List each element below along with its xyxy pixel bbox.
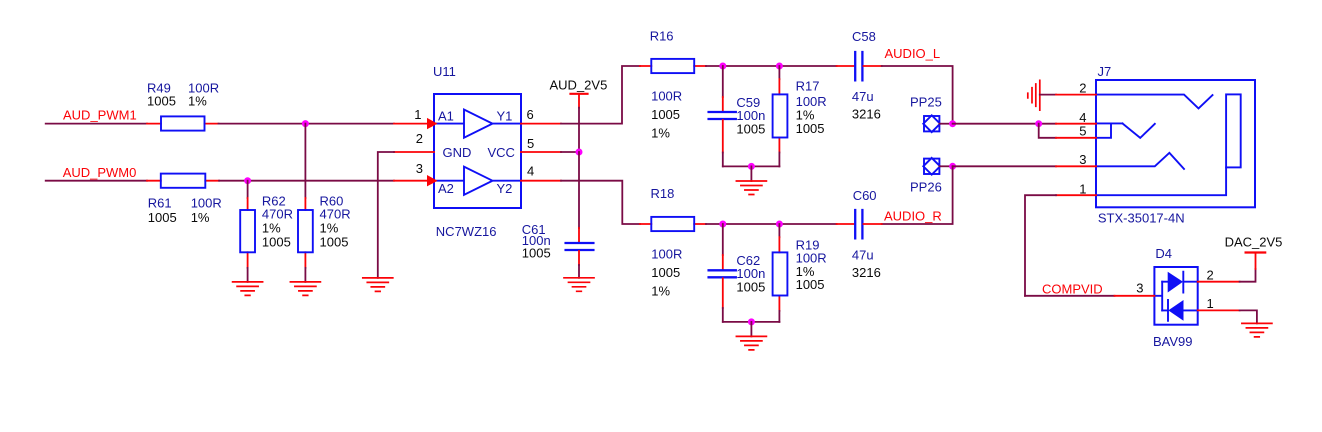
wire rail2 to ground: [750, 322, 752, 337]
svg-text:5: 5: [1079, 124, 1086, 139]
svg-text:STX-35017-4N: STX-35017-4N: [1098, 211, 1185, 226]
svg-text:R61: R61: [148, 196, 172, 211]
J7 pin 4: [1056, 123, 1096, 125]
svg-text:100R: 100R: [651, 89, 682, 104]
U11 pin 6: [521, 123, 561, 125]
wire rail row2: [723, 321, 780, 323]
ground under rail2: [736, 336, 766, 350]
svg-text:4: 4: [527, 163, 534, 178]
svg-text:2: 2: [1207, 267, 1214, 282]
D4 internal top diode: [1162, 272, 1198, 293]
svg-text:5: 5: [527, 136, 534, 151]
svg-text:R16: R16: [650, 28, 674, 43]
wire AUDIO_L to PP25 column: [882, 66, 953, 124]
svg-text:470R: 470R: [262, 207, 293, 222]
wire rail row1: [723, 165, 780, 167]
wire AUD_PWM1 to U11 pin 1: [219, 123, 395, 125]
wire U11 GND pin to ground: [378, 152, 394, 278]
wire Y1 output to R16 row: [561, 66, 640, 124]
svg-text:AUDIO_L: AUDIO_L: [885, 46, 941, 61]
node PP26 junction: [949, 163, 956, 170]
wire AUDIO_R up to PP26: [882, 166, 953, 224]
node J7 pin4 branch: [1035, 120, 1042, 127]
svg-text:AUD_2V5: AUD_2V5: [550, 78, 608, 93]
U11 pin 4: [521, 180, 561, 182]
wire PP26 to J7 pin3: [953, 165, 1056, 167]
resistor R61: [147, 174, 219, 188]
svg-text:1005: 1005: [736, 122, 765, 137]
svg-text:D4: D4: [1155, 246, 1172, 261]
wire C59 to rail: [722, 153, 724, 167]
svg-text:2: 2: [1079, 80, 1086, 95]
U11 buffer 2: [434, 167, 521, 195]
wire COMPVID horizontal: [1025, 295, 1115, 297]
wire R19 to rail2: [778, 311, 780, 322]
svg-text:1%: 1%: [320, 221, 339, 236]
ground under rail1: [736, 181, 766, 195]
wire VCC node down to C61: [578, 152, 580, 228]
svg-text:3216: 3216: [852, 265, 881, 280]
svg-text:R18: R18: [651, 186, 675, 201]
ground under R60: [290, 282, 320, 296]
wire J7 pin1 to COMPVID corner: [1025, 195, 1056, 296]
J7 pin 1: [1056, 194, 1096, 196]
svg-text:J7: J7: [1098, 64, 1112, 79]
wire R62 to ground: [247, 268, 249, 282]
capacitor C60: [837, 210, 882, 238]
svg-text:AUD_PWM1: AUD_PWM1: [63, 108, 137, 123]
svg-text:1005: 1005: [147, 94, 176, 109]
wire rail1 to ground: [750, 166, 752, 181]
resistor R17: [773, 66, 788, 153]
svg-text:GND: GND: [443, 145, 472, 160]
svg-text:R17: R17: [796, 79, 820, 94]
svg-text:1%: 1%: [651, 126, 670, 141]
capacitor C58: [837, 52, 882, 80]
svg-text:VCC: VCC: [488, 145, 515, 160]
J7 internal pin2 contact: [1096, 95, 1213, 109]
svg-text:1: 1: [414, 107, 421, 122]
resistor R19: [773, 224, 788, 311]
svg-text:A1: A1: [438, 109, 454, 124]
node VCC junction: [576, 149, 583, 156]
svg-text:1%: 1%: [262, 221, 281, 236]
svg-text:1: 1: [1207, 296, 1214, 311]
resistor R60: [298, 198, 313, 268]
wire R16 to C58: [706, 65, 837, 67]
svg-text:U11: U11: [433, 64, 456, 79]
wire AUD_2V5 down to VCC node: [578, 108, 580, 152]
svg-text:100R: 100R: [191, 196, 222, 211]
svg-text:3: 3: [1136, 280, 1143, 295]
svg-text:47u: 47u: [852, 247, 874, 262]
resistor R18: [640, 217, 706, 231]
wire PP25 to J7 pin4 node: [953, 123, 1056, 125]
wire Y2 output to R18 row: [561, 181, 640, 224]
D4 pin 2: [1198, 281, 1240, 283]
svg-text:1005: 1005: [262, 234, 291, 249]
capacitor C62: [709, 224, 736, 308]
svg-text:1%: 1%: [651, 283, 670, 298]
wire D4 pin1 to ground: [1240, 310, 1257, 323]
svg-text:1%: 1%: [191, 210, 210, 225]
svg-text:1005: 1005: [148, 210, 177, 225]
svg-text:AUD_PWM0: AUD_PWM0: [63, 165, 137, 180]
D4 internal common link: [1154, 282, 1162, 311]
ground under R62: [233, 282, 263, 296]
svg-text:3216: 3216: [852, 107, 881, 122]
J7 pin 2: [1056, 94, 1096, 96]
J7 internal pin4 tip contact: [1096, 123, 1155, 137]
op-amp U11 body: [434, 94, 521, 208]
svg-text:100R: 100R: [651, 246, 682, 261]
wire VCC pin to node: [561, 151, 579, 153]
node junction row1 at C59: [719, 63, 726, 70]
svg-text:BAV99: BAV99: [1153, 334, 1193, 349]
resistor R16: [640, 59, 706, 73]
svg-text:470R: 470R: [320, 207, 351, 222]
svg-text:3: 3: [1079, 152, 1086, 167]
svg-text:A2: A2: [438, 181, 454, 196]
svg-text:AUDIO_R: AUDIO_R: [884, 208, 942, 223]
ground under C61: [564, 278, 594, 292]
diode D4 body: [1154, 267, 1197, 325]
svg-text:Y1: Y1: [497, 109, 513, 124]
test point PP26: [923, 158, 952, 175]
wire R60 to ground: [304, 268, 306, 282]
node junction on AUD_PWM0: [244, 177, 251, 184]
svg-text:PP25: PP25: [910, 94, 942, 109]
svg-text:COMPVID: COMPVID: [1042, 281, 1103, 296]
node junction on AUD_PWM1: [302, 120, 309, 127]
wire R18 to C60: [706, 223, 837, 225]
node junction row1 at R17: [776, 63, 783, 70]
svg-text:1005: 1005: [796, 277, 825, 292]
wire AUD_PWM1 left: [46, 123, 147, 125]
J7 internal sleeve contact: [1226, 94, 1241, 167]
capacitor C61: [566, 228, 594, 265]
svg-text:C58: C58: [852, 29, 876, 44]
J7 internal pin3 ring contact: [1096, 153, 1184, 169]
wire C61 to ground: [578, 265, 580, 278]
resistor R62: [240, 181, 255, 268]
wire branch down to J7 pin5: [1039, 124, 1056, 138]
D4 pin 1: [1198, 309, 1240, 311]
J7 pin 3: [1056, 165, 1096, 167]
svg-text:1005: 1005: [522, 245, 551, 260]
wire AUD_PWM0 left: [46, 180, 147, 182]
node junction row2 at C62: [719, 221, 726, 228]
svg-text:1%: 1%: [188, 94, 207, 109]
svg-text:C60: C60: [853, 188, 877, 203]
wire AUD_PWM0 to U11 pin 3: [219, 180, 394, 182]
svg-text:3: 3: [416, 161, 423, 176]
J7 pin 5: [1056, 137, 1096, 139]
earth ground at J7 pin2: [1028, 80, 1056, 110]
U11 pin 3: [394, 180, 428, 182]
svg-text:DAC_2V5: DAC_2V5: [1225, 234, 1283, 249]
U11 pin 1: [394, 123, 428, 125]
J7 internal pin1 line: [1096, 167, 1226, 195]
wire R17 to rail: [778, 153, 780, 167]
node rail2 junction: [748, 318, 755, 325]
U11 pin 2: [394, 151, 434, 153]
power symbol DAC_2V5: [1225, 234, 1283, 269]
svg-text:PP26: PP26: [910, 180, 942, 195]
node PP25 junction: [949, 120, 956, 127]
svg-text:Y2: Y2: [497, 181, 513, 196]
capacitor C59: [709, 66, 736, 153]
ground at D4 pin1: [1242, 323, 1272, 337]
U11 pin 5: [521, 151, 561, 153]
wire C62 to rail2: [722, 308, 724, 322]
svg-text:1005: 1005: [651, 265, 680, 280]
test point PP25: [923, 115, 952, 132]
wire D4 pin2 to DAC_2V5: [1240, 269, 1256, 282]
svg-text:1005: 1005: [796, 121, 825, 136]
power symbol AUD_2V5: [550, 78, 608, 108]
svg-text:1: 1: [1079, 182, 1086, 197]
svg-text:47u: 47u: [852, 89, 874, 104]
wire junction down to R60: [304, 124, 306, 198]
D4 internal bottom diode: [1162, 300, 1198, 321]
node rail1 junction: [748, 163, 755, 170]
D4 pin 3: [1115, 295, 1155, 297]
svg-text:NC7WZ16: NC7WZ16: [436, 224, 497, 239]
U11 buffer 1: [434, 110, 521, 138]
svg-text:1005: 1005: [320, 234, 349, 249]
svg-text:1005: 1005: [651, 107, 680, 122]
ground for U11 GND: [363, 278, 393, 292]
svg-text:6: 6: [527, 107, 534, 122]
svg-text:2: 2: [416, 131, 423, 146]
svg-text:1005: 1005: [736, 280, 765, 295]
resistor R49: [147, 116, 219, 130]
connector J7 body: [1096, 80, 1255, 207]
node junction row2 at R19: [776, 221, 783, 228]
